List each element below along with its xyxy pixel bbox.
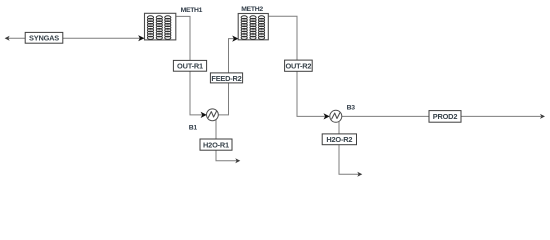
stream label box PROD2 bbox=[429, 111, 461, 123]
stream label box OUT-R2 bbox=[285, 60, 313, 71]
stream label box H2O-R2 bbox=[322, 134, 356, 145]
svg-text:METH2: METH2 bbox=[241, 6, 263, 13]
stream H2O-R2 wire bbox=[339, 122, 359, 174]
svg-text:FEED-R2: FEED-R2 bbox=[211, 74, 241, 83]
product terminator PROD2 bbox=[540, 114, 545, 119]
svg-text:H2O-R2: H2O-R2 bbox=[326, 135, 352, 144]
svg-text:OUT-R2: OUT-R2 bbox=[285, 62, 311, 71]
svg-text:B3: B3 bbox=[347, 105, 356, 112]
reactor METH2 bbox=[238, 14, 268, 40]
feed terminator SYNGAS bbox=[5, 36, 10, 41]
stream OUT-R1 wire bbox=[176, 16, 206, 115]
stream label box FEED-R2 bbox=[210, 73, 242, 83]
svg-text:METH1: METH1 bbox=[181, 7, 203, 14]
stream label box SYNGAS bbox=[25, 32, 63, 43]
stream label box H2O-R1 bbox=[200, 139, 232, 150]
arrow into METH2 bbox=[232, 36, 238, 42]
heater B1 bbox=[207, 109, 219, 121]
stream label box OUT-R1 bbox=[173, 60, 206, 71]
stream PROD2 wire bbox=[342, 115, 541, 117]
stream OUT-R2 wire bbox=[268, 16, 328, 116]
stream FEED-R2 wire bbox=[218, 39, 237, 115]
product terminator H2O-R1 bbox=[235, 158, 240, 163]
svg-text:SYNGAS: SYNGAS bbox=[29, 34, 59, 43]
label METH1 bbox=[181, 7, 203, 14]
reactor METH1 bbox=[145, 13, 176, 40]
arrow into B3 bbox=[324, 113, 330, 119]
svg-text:H2O-R1: H2O-R1 bbox=[203, 141, 229, 150]
svg-text:OUT-R1: OUT-R1 bbox=[177, 62, 203, 71]
label B3 bbox=[347, 105, 356, 112]
stream SYNGAS wire bbox=[8, 37, 145, 39]
label B1 bbox=[189, 125, 198, 132]
svg-text:B1: B1 bbox=[189, 125, 198, 132]
arrow into METH1 bbox=[138, 35, 144, 41]
heater B3 bbox=[330, 110, 342, 122]
label METH2 bbox=[241, 6, 263, 13]
product terminator H2O-R2 bbox=[357, 172, 362, 177]
arrow into B1 bbox=[201, 112, 207, 118]
svg-text:PROD2: PROD2 bbox=[433, 112, 458, 121]
stream H2O-R1 wire bbox=[216, 119, 237, 160]
